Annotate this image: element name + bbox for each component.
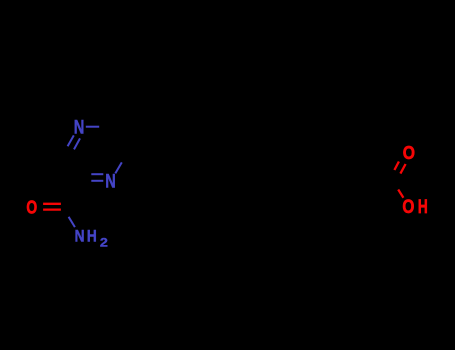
svg-text:H: H	[418, 197, 428, 218]
wire N2=C double bond upper line (blue half)	[91, 173, 103, 175]
svg-text:O: O	[403, 142, 415, 163]
svg-text:N: N	[74, 117, 85, 139]
wire C=O1 double bond lower line (red half)	[43, 208, 61, 210]
wire C-OH single bond (red half)	[398, 190, 403, 198]
wire N2-C(right) single bond (blue half)	[115, 162, 122, 173]
node N1 (pyrazine ring nitrogen, top-left)	[74, 117, 85, 139]
node O2 (carboxylic acid carbonyl oxygen label)	[403, 142, 415, 163]
node NH2 (amide nitrogen label)	[75, 226, 108, 249]
wire N1=C(left) double bond inner line (blue half)	[74, 138, 80, 149]
wire C=O2 double bond right line (red half)	[400, 164, 405, 174]
wire N2=C double bond lower line (blue half)	[91, 180, 103, 182]
node N2 (pyrazine ring nitrogen, center)	[105, 172, 116, 193]
svg-text:N: N	[105, 172, 116, 193]
wire C=O2 double bond left line (red half)	[394, 162, 399, 171]
svg-text:O: O	[402, 197, 414, 218]
svg-text:2: 2	[100, 236, 108, 250]
node OH (carboxylic acid hydroxyl label)	[402, 197, 427, 218]
svg-text:H: H	[87, 226, 97, 245]
svg-text:O: O	[26, 198, 37, 218]
wire N1-C(top) single bond (blue half)	[86, 126, 99, 128]
wire N1=C(left) double bond outer line (blue half)	[68, 135, 74, 146]
node O1 (amide carbonyl oxygen label)	[26, 198, 37, 218]
wire C=O1 double bond upper line (red half)	[43, 203, 61, 205]
wire C(amide)-N bond to NH2 (blue half)	[69, 217, 75, 227]
svg-text:N: N	[75, 226, 85, 245]
